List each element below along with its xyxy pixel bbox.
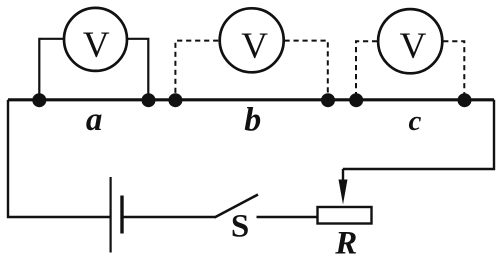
svg-text:b: b	[244, 102, 261, 139]
svg-text:S: S	[231, 209, 249, 245]
svg-text:V: V	[83, 25, 110, 66]
svg-text:a: a	[86, 102, 103, 138]
svg-text:V: V	[400, 26, 427, 67]
svg-text:c: c	[408, 105, 421, 137]
svg-text:R: R	[334, 226, 357, 262]
svg-text:V: V	[241, 26, 268, 67]
